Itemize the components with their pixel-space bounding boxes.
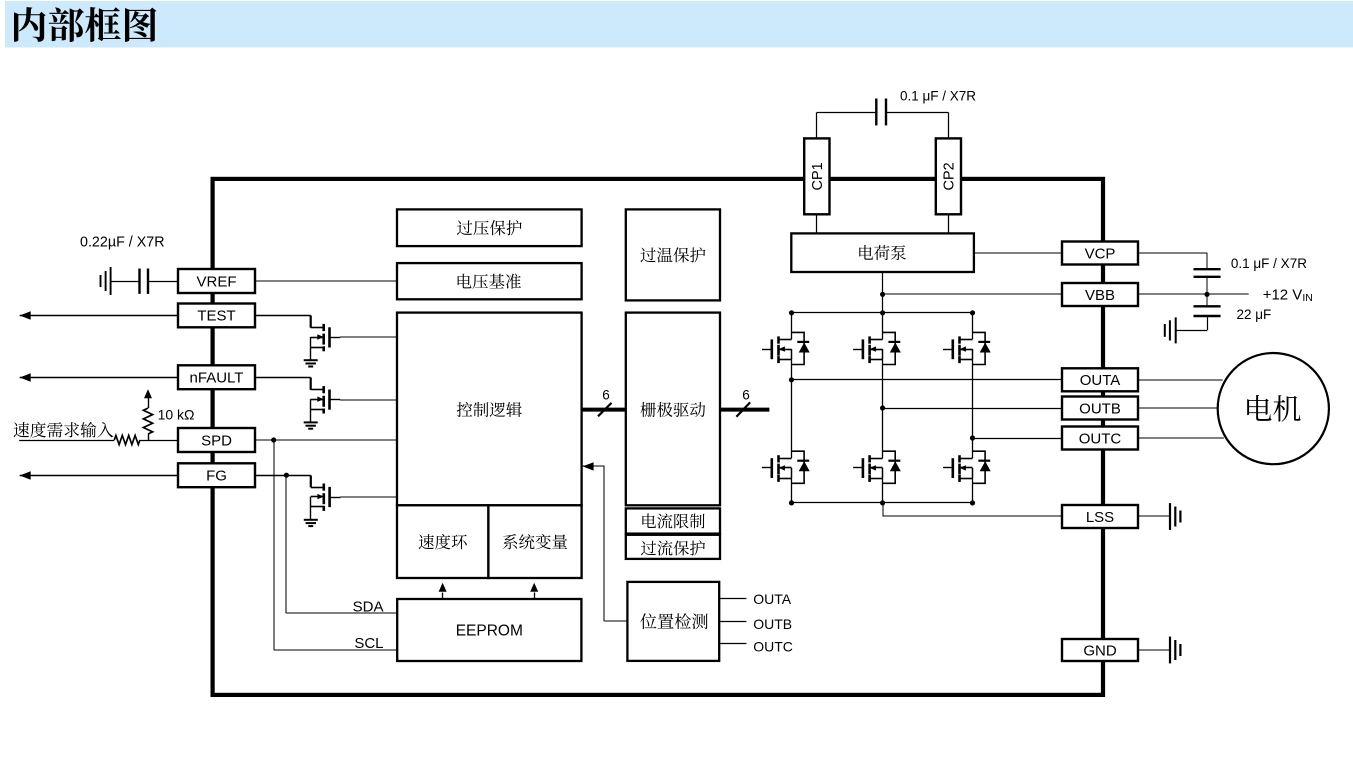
svg-text:CP2: CP2 bbox=[941, 162, 957, 190]
svg-text:0.1 μF / X7R: 0.1 μF / X7R bbox=[900, 88, 976, 103]
svg-text:CP1: CP1 bbox=[810, 162, 826, 190]
svg-text:SPD: SPD bbox=[201, 432, 232, 449]
svg-text:VREF: VREF bbox=[196, 273, 236, 290]
svg-text:SDA: SDA bbox=[353, 599, 384, 616]
svg-text:OUTC: OUTC bbox=[753, 639, 793, 655]
svg-text:0.22µF / X7R: 0.22µF / X7R bbox=[80, 234, 165, 250]
svg-text:VBB: VBB bbox=[1085, 287, 1115, 304]
svg-text:GND: GND bbox=[1083, 642, 1117, 659]
svg-text:TEST: TEST bbox=[197, 308, 235, 325]
svg-text:SCL: SCL bbox=[354, 635, 383, 652]
svg-text:10 kΩ: 10 kΩ bbox=[158, 406, 195, 422]
svg-text:VCP: VCP bbox=[1085, 245, 1116, 262]
svg-text:nFAULT: nFAULT bbox=[190, 370, 244, 387]
svg-text:OUTA: OUTA bbox=[1080, 372, 1121, 389]
svg-text:OUTB: OUTB bbox=[753, 616, 792, 632]
svg-text:0.1 μF / X7R: 0.1 μF / X7R bbox=[1231, 256, 1307, 271]
svg-text:EEPROM: EEPROM bbox=[456, 623, 523, 640]
svg-text:OUTB: OUTB bbox=[1079, 400, 1121, 417]
svg-text:OUTA: OUTA bbox=[753, 591, 792, 607]
svg-text:FG: FG bbox=[206, 468, 227, 485]
svg-text:6: 6 bbox=[602, 388, 610, 403]
svg-text:OUTC: OUTC bbox=[1079, 430, 1122, 447]
svg-text:6: 6 bbox=[742, 388, 750, 403]
svg-text:22 μF: 22 μF bbox=[1237, 307, 1272, 322]
svg-text:+12 VIN: +12 VIN bbox=[1263, 286, 1313, 304]
svg-text:LSS: LSS bbox=[1086, 509, 1114, 526]
